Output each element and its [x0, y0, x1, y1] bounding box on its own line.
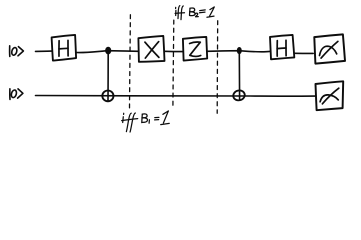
annotation iff B2 = 1 [175, 6, 214, 20]
CNOT 2 vertical wire [238, 51, 240, 100]
barrier dashed line 1 [129, 15, 132, 109]
barrier dashed line 3 [216, 21, 219, 113]
meter 2 needle [322, 88, 338, 104]
wire q1 ket to H1 [36, 50, 52, 52]
gate Z letter [190, 42, 201, 56]
CNOT 1 control dot [105, 47, 111, 55]
CNOT 1 vertical wire [107, 51, 109, 102]
wire q1 H1 to X [76, 51, 138, 53]
meter 2 gauge arc [320, 95, 338, 102]
gate Z box [183, 37, 207, 61]
gate H2 letter [277, 40, 286, 56]
wire q1 Z to H2 [207, 51, 270, 52]
meter 1 gauge arc [320, 46, 337, 55]
meter 1 needle [321, 41, 338, 58]
ket |0> qubit 2 [10, 89, 23, 100]
wire q2 ket to meter [36, 95, 315, 98]
annotation iff B1 = 1 [122, 111, 170, 132]
barrier dashed line 2 [172, 20, 175, 108]
CNOT 2 target circle [232, 89, 246, 101]
CNOT 1 target circle [102, 91, 113, 102]
gate X letter [145, 42, 159, 59]
CNOT 2 control dot [237, 47, 242, 54]
gate X box [138, 36, 164, 62]
wire q1 X to Z [165, 50, 183, 52]
gate H1 box [52, 35, 77, 61]
meter 2 box [316, 81, 344, 110]
wire q1 H2 to meter [295, 52, 314, 54]
ket |0> qubit 1 [10, 46, 24, 57]
meter 1 box [314, 34, 345, 63]
gate H2 box [270, 35, 294, 59]
gate H1 letter [59, 40, 68, 56]
